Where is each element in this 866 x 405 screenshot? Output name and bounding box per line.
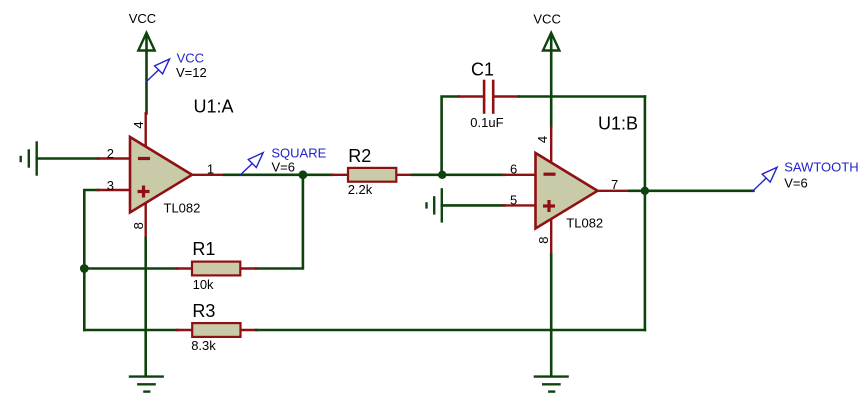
svg-text:SQUARE: SQUARE bbox=[271, 146, 326, 161]
wire: U1:A pin3 to left vertical bbox=[84, 190, 98, 330]
svg-text:4: 4 bbox=[535, 136, 550, 143]
pin 4 of U1:B (red stub) bbox=[550, 128, 552, 163]
svg-text:R2: R2 bbox=[348, 146, 371, 166]
ground symbol (bottom left) bbox=[130, 377, 163, 392]
pin 3 of U1:A (red stub) bbox=[98, 189, 131, 191]
ground symbol (left, rotated, at U1:A pin 2) bbox=[21, 143, 37, 175]
wire: junction to U1:B pin6 handled above; pin 6 red stub bbox=[504, 174, 537, 176]
voltage probe SAWTOOTH bbox=[753, 167, 777, 190]
svg-text:0.1uF: 0.1uF bbox=[470, 115, 503, 130]
wire: U1:A pin8 down to ground bbox=[144, 238, 147, 376]
pin 5 of U1:B (red stub) bbox=[504, 204, 537, 206]
wire: output U1:A to R2 left bbox=[224, 174, 333, 177]
svg-text:2.2k: 2.2k bbox=[348, 182, 373, 197]
resistor R1 bbox=[177, 267, 193, 269]
svg-text:8: 8 bbox=[131, 222, 146, 229]
svg-text:2: 2 bbox=[107, 146, 114, 161]
U1:A minus sign bbox=[138, 157, 150, 160]
wire: right vertical feedback bbox=[644, 97, 647, 331]
pin 2 of U1:A (red stub) bbox=[98, 157, 131, 159]
svg-text:7: 7 bbox=[611, 177, 618, 192]
svg-text:4: 4 bbox=[131, 121, 146, 128]
svg-text:3: 3 bbox=[107, 178, 114, 193]
svg-text:SAWTOOTH: SAWTOOTH bbox=[784, 160, 858, 175]
ground symbol (bottom right) bbox=[535, 377, 568, 392]
svg-text:R1: R1 bbox=[192, 239, 215, 259]
svg-text:TL082: TL082 bbox=[164, 201, 201, 216]
svg-text:5: 5 bbox=[510, 192, 517, 207]
wire: left ground to U1:A pin2 bbox=[37, 157, 99, 160]
wire: U1:B output to SAWTOOTH bbox=[629, 190, 753, 193]
wire: R2 right to U1:B pin6 bbox=[412, 174, 504, 177]
wire: ground to U1:B pin5 bbox=[442, 204, 504, 207]
pin 8 of U1:A (red stub) bbox=[144, 204, 146, 238]
power symbol VCC left bbox=[138, 33, 154, 114]
pin 4 of U1:A (red stub) bbox=[144, 113, 146, 148]
U1:B plus sign bbox=[543, 200, 555, 212]
wire: junction to R1 left bbox=[84, 267, 177, 270]
svg-text:6: 6 bbox=[510, 161, 517, 176]
U1:B minus sign bbox=[544, 173, 556, 176]
svg-text:TL082: TL082 bbox=[566, 216, 603, 231]
resistor R2 bbox=[332, 174, 349, 176]
node junction at output (644.9,190.8) bbox=[641, 187, 649, 195]
svg-text:U1:A: U1:A bbox=[194, 97, 234, 117]
svg-text:10k: 10k bbox=[193, 277, 214, 292]
svg-text:R3: R3 bbox=[192, 301, 215, 321]
voltage probe SQUARE bbox=[241, 153, 263, 175]
capacitor C1 bbox=[459, 95, 483, 97]
svg-text:U1:B: U1:B bbox=[598, 114, 638, 134]
wire: left vertical to R3 left bbox=[84, 329, 178, 332]
svg-text:VCC: VCC bbox=[177, 51, 204, 66]
svg-text:V=12: V=12 bbox=[176, 65, 207, 80]
op-amp U1:A body bbox=[130, 137, 192, 213]
svg-text:VCC: VCC bbox=[129, 11, 156, 26]
node junction at (442.2,174.8) bbox=[438, 171, 446, 179]
svg-text:1: 1 bbox=[207, 162, 214, 177]
svg-text:C1: C1 bbox=[471, 60, 494, 80]
node junction at left vertical / R1 (84.3,268.5) bbox=[80, 264, 89, 273]
op-amp U1:B body bbox=[536, 153, 598, 229]
ground symbol (rotated, at U1:B pin 5) bbox=[427, 189, 442, 221]
svg-text:8.3k: 8.3k bbox=[191, 338, 216, 353]
pin 1 output of U1:A (red stub) bbox=[191, 174, 224, 176]
power symbol VCC right bbox=[543, 33, 559, 128]
wire: C1 right to right vertical bbox=[519, 95, 645, 98]
node junction at SQUARE (302.9,174.8) bbox=[299, 170, 308, 179]
U1:A plus sign bbox=[138, 186, 150, 198]
pin 8 of U1:B (red stub) bbox=[550, 219, 552, 254]
voltage probe VCC V=12 bbox=[147, 59, 170, 82]
pin 7 output of U1:B (red stub) bbox=[597, 190, 630, 192]
wire: U1:B pin8 down to ground bbox=[550, 254, 553, 376]
resistor R3 bbox=[177, 329, 193, 331]
svg-text:V=6: V=6 bbox=[272, 160, 296, 175]
svg-text:VCC: VCC bbox=[533, 11, 560, 26]
wire: feedback left vertical up to C1 bbox=[442, 97, 459, 175]
svg-text:V=6: V=6 bbox=[784, 176, 808, 191]
svg-text:8: 8 bbox=[536, 236, 551, 243]
wire: SQUARE node down to R1 right bbox=[256, 175, 303, 269]
wire: R3 right to right vertical bbox=[256, 329, 645, 332]
